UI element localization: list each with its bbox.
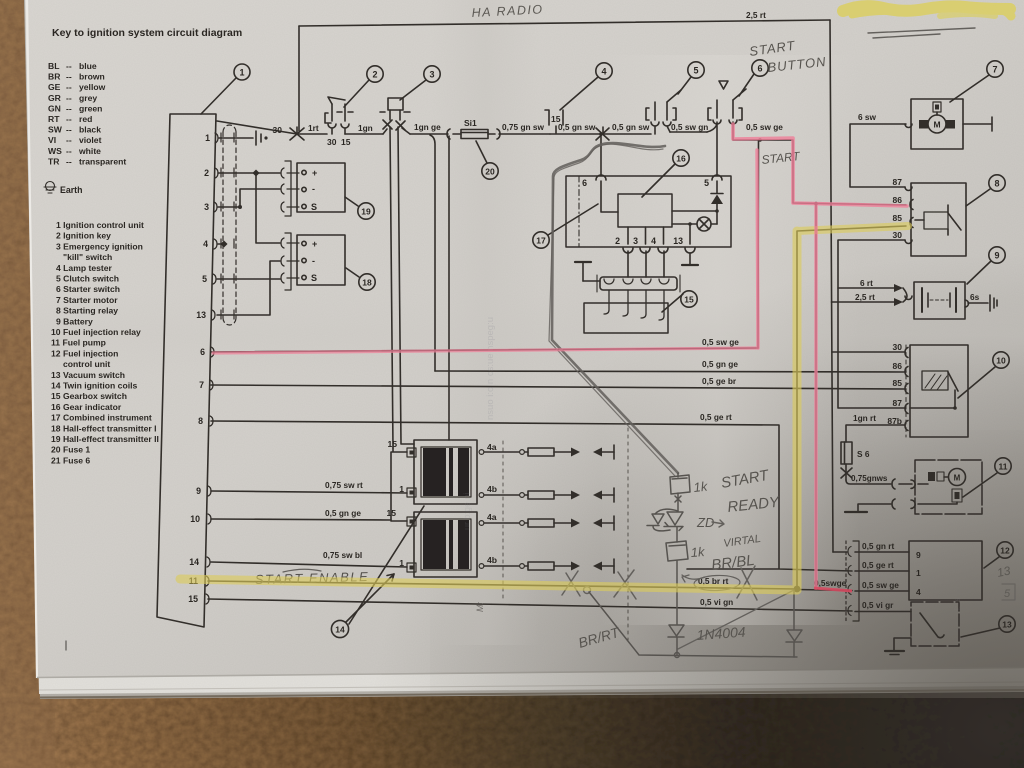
svg-text:--: -- [66, 125, 72, 135]
svg-text:0,75gnws: 0,75gnws [851, 474, 888, 483]
pin numbers of U1 [188, 133, 210, 604]
svg-text:1: 1 [239, 68, 244, 78]
wire row pin8 0,5 ge rt [211, 412, 852, 571]
vacuum switch S7 (item 13) [885, 602, 959, 655]
svg-text:7 Starter motor: 7 Starter motor [56, 295, 118, 305]
svg-text:0,75 sw rt: 0,75 sw rt [325, 480, 363, 490]
node label circle 3 [400, 66, 440, 100]
svg-text:6s: 6s [970, 292, 980, 302]
svg-text:WS: WS [48, 146, 62, 156]
svg-text:1: 1 [205, 133, 210, 143]
connector brackets to transmitters [281, 161, 299, 290]
svg-text:6: 6 [757, 64, 762, 74]
2,5rt supply bus wire [299, 10, 830, 131]
svg-text:9 Battery: 9 Battery [56, 316, 93, 326]
wire pin10 0,5 gn ge to coil 15 rail [211, 508, 391, 520]
svg-text:16 Gear indicator: 16 Gear indicator [51, 402, 122, 412]
svg-text:S: S [311, 273, 317, 283]
svg-text:0,5 vi gr: 0,5 vi gr [862, 600, 894, 610]
svg-text:10 Fuel injection relay: 10 Fuel injection relay [51, 327, 141, 337]
svg-text:11: 11 [999, 462, 1008, 472]
ground at instrument pin 13 [682, 253, 698, 265]
svg-text:3: 3 [633, 236, 638, 246]
combined instrument box (item 17) [566, 176, 731, 247]
wire relay30 to battery [838, 240, 905, 288]
gear indicator box (item 16) [618, 194, 672, 227]
svg-text:85: 85 [893, 378, 903, 388]
junction circle on br-rt wire [584, 587, 591, 594]
svg-text:-: - [312, 184, 315, 194]
node label circle 19 [345, 197, 374, 219]
pencil arrow to tap point [682, 575, 705, 582]
wire pin14 0,75 sw bl to coil2 [211, 550, 407, 567]
fuel pump M2 (item 11) [911, 460, 982, 514]
wire row pin6 0,5 sw ge [211, 337, 758, 352]
svg-text:0,5 gn sw: 0,5 gn sw [612, 122, 650, 132]
svg-text:2,5 rt: 2,5 rt [855, 292, 875, 302]
wire kill-switch feed down to coils [390, 127, 414, 448]
gearbox switch box (item 15) [584, 303, 668, 333]
svg-text:0,5 ge rt: 0,5 ge rt [700, 412, 732, 422]
svg-text:15: 15 [188, 594, 198, 604]
svg-text:Si1: Si1 [464, 118, 477, 128]
svg-text:GN: GN [48, 103, 61, 113]
svg-text:8 Starting relay: 8 Starting relay [56, 306, 118, 316]
svg-text:M: M [933, 120, 940, 130]
lamp tester tap (item 4) [545, 110, 563, 133]
node label circle 13 [961, 616, 1015, 637]
svg-text:violet: violet [79, 135, 102, 145]
svg-text:M:: M: [475, 602, 485, 612]
wire rail to relay10 30 [832, 351, 905, 353]
svg-text:12 Fuel injection: 12 Fuel injection [51, 348, 118, 358]
svg-text:15: 15 [387, 439, 397, 449]
node label circle 8 [966, 175, 1005, 206]
svg-text:0,5 ge rt: 0,5 ge rt [862, 560, 894, 570]
svg-text:3: 3 [429, 70, 434, 80]
svg-text:1rt: 1rt [308, 123, 319, 133]
clutch switch S5 (item 5) [646, 90, 681, 134]
svg-text:brown: brown [79, 72, 105, 82]
svg-text:85: 85 [893, 213, 903, 223]
svg-text:TR: TR [48, 156, 60, 166]
svg-text:15: 15 [341, 137, 351, 147]
svg-text:0,5 gn ge: 0,5 gn ge [702, 359, 738, 369]
svg-text:87: 87 [893, 398, 903, 408]
wire relay 85 feed up [797, 226, 906, 589]
svg-text:16: 16 [676, 154, 686, 164]
svg-text:--: -- [66, 93, 72, 103]
svg-text:0,5 gn sw: 0,5 gn sw [558, 122, 596, 132]
clamp node on 0,5gn sw [558, 122, 650, 140]
wire to clutch switch [550, 133, 651, 135]
hall-effect transmitter II (item 19) [297, 163, 345, 212]
wire row pin11 0,5 br rt [208, 576, 800, 592]
svg-text:1N4004: 1N4004 [696, 624, 746, 643]
wire pin5 [217, 278, 280, 280]
wire 6 sw starter to relay 87 [850, 112, 906, 187]
svg-text:0,5 sw ge: 0,5 sw ge [702, 337, 739, 347]
node label circle 5 [678, 62, 704, 94]
svg-text:GR: GR [48, 93, 62, 103]
svg-text:18 Hall-effect transmitter I: 18 Hall-effect transmitter I [51, 423, 157, 433]
svg-text:1 Ignition control unit: 1 Ignition control unit [56, 220, 144, 230]
clamp node 30 [273, 123, 319, 140]
node label circle 15 [662, 291, 697, 312]
diode D1 in instrument [672, 194, 723, 225]
wire 1gn ge [410, 122, 448, 134]
node label circle 16 [642, 150, 689, 197]
svg-text:control unit: control unit [63, 359, 110, 369]
wire 0,5swge to ECU pin4 [797, 578, 852, 591]
svg-text:blue: blue [79, 61, 97, 71]
svg-text:13: 13 [673, 236, 683, 246]
svg-text:--: -- [66, 114, 72, 124]
svg-text:19: 19 [361, 207, 371, 217]
node label circle 14 [331, 506, 424, 638]
svg-text:SW: SW [48, 125, 63, 135]
svg-text:87: 87 [893, 177, 903, 187]
svg-text:+: + [312, 168, 317, 178]
svg-text:4: 4 [916, 587, 921, 597]
starting relay K1 (item 8) [893, 177, 966, 256]
grey jumper wire from clutch feed to start-ready chain [552, 143, 678, 473]
svg-text:4 Lamp tester: 4 Lamp tester [56, 263, 113, 273]
small pencil mark bottom left [65, 641, 67, 650]
ignition coil T2 (item 14 lower) [386, 508, 497, 577]
svg-text:4a: 4a [487, 512, 497, 522]
instrument pin 5 [704, 175, 722, 188]
spark plug lead row 4a-1 [484, 445, 614, 459]
svg-text:yellow: yellow [79, 82, 106, 92]
fuel injection relay K2 (item 10) [887, 342, 968, 437]
svg-text:5: 5 [202, 274, 207, 284]
svg-text:17 Combined instrument: 17 Combined instrument [51, 413, 152, 423]
node label circle 10 [958, 352, 1009, 398]
svg-text:19 Hall-effect transmitter II: 19 Hall-effect transmitter II [51, 434, 159, 444]
svg-text:6 Starter switch: 6 Starter switch [56, 284, 120, 294]
svg-text:--: -- [66, 72, 72, 82]
svg-text:4b: 4b [487, 555, 497, 565]
svg-text:--: -- [66, 82, 72, 92]
svg-text:2: 2 [615, 236, 620, 246]
fuse Si1 (item 20/fuse1) [447, 118, 500, 139]
svg-text:0,5 vi gn: 0,5 vi gn [700, 597, 733, 607]
svg-text:red: red [79, 114, 92, 124]
svg-text:2 Ignition key: 2 Ignition key [56, 231, 111, 241]
earth symbol legend [44, 182, 83, 196]
key numbered list [51, 220, 159, 465]
svg-text:2: 2 [204, 168, 209, 178]
svg-text:8: 8 [994, 179, 999, 189]
connector plane dashed lines [503, 428, 628, 640]
svg-text:white: white [78, 146, 101, 156]
kill switch S3 (item 3) [380, 98, 410, 134]
svg-text:9: 9 [916, 550, 921, 560]
pink marker start trace [213, 124, 907, 588]
svg-text:15 Gearbox switch: 15 Gearbox switch [51, 391, 127, 401]
node label circle 1 [201, 64, 250, 114]
node label circle 7 [950, 61, 1003, 102]
svg-text:86: 86 [893, 361, 903, 371]
ignition control unit U1 (item 1) [157, 114, 216, 627]
wire row pin7 0,5 ge br to relay 85 [211, 376, 906, 389]
svg-text:3 Emergency ignition: 3 Emergency ignition [56, 241, 143, 251]
red marker segment into ECU [814, 588, 852, 591]
wire 0,5 sw gn [670, 122, 708, 132]
wire 2,5rt rail to battery [832, 292, 895, 302]
wire relay10-87 from rail [838, 288, 905, 408]
pin sockets of U1 [206, 133, 218, 604]
svg-text:6 rt: 6 rt [860, 278, 873, 288]
wire pin13 [217, 261, 280, 315]
pencil 5 bracket [1002, 584, 1015, 600]
node label circle 18 [346, 268, 375, 290]
svg-text:20 Fuse 1: 20 Fuse 1 [51, 445, 90, 455]
svg-text:21 Fuse 6: 21 Fuse 6 [51, 455, 90, 465]
svg-text:4: 4 [203, 239, 208, 249]
wire 1rt [297, 133, 327, 135]
svg-text:10: 10 [190, 514, 200, 524]
svg-text:14 Twin ignition coils: 14 Twin ignition coils [51, 381, 137, 391]
svg-text:12: 12 [1000, 546, 1010, 556]
wire 0,75 gn sw [499, 122, 550, 134]
svg-text:13 Vacuum switch: 13 Vacuum switch [51, 370, 125, 380]
svg-text:11 Fuel pump: 11 Fuel pump [51, 338, 106, 348]
svg-text:-: - [312, 256, 315, 266]
pencil wire from swge junction [678, 590, 794, 649]
svg-text:1k: 1k [690, 544, 706, 560]
spark plug lead row 4b-1 [484, 488, 614, 502]
wire 1gn [345, 123, 383, 134]
svg-text:i: .s: i: .s [953, 598, 962, 610]
svg-text:6: 6 [582, 178, 587, 188]
zener pair ZD [647, 509, 683, 542]
svg-text:ur b:ge ni: ur b:ge ni [462, 492, 472, 530]
svg-text:14: 14 [335, 625, 345, 635]
instrument pin 6 [582, 175, 618, 212]
svg-text:17: 17 [536, 236, 546, 246]
diode D-1N4004 a [668, 625, 684, 658]
wire pin3 [218, 189, 280, 209]
svg-text:15: 15 [684, 295, 694, 305]
svg-text:13: 13 [196, 310, 206, 320]
starter motor M1 (item 7) [905, 99, 992, 149]
svg-text:0,5 sw ge: 0,5 sw ge [746, 122, 783, 132]
wire pin9 0,75 sw rt to coil1 [211, 480, 407, 493]
svg-text:9: 9 [196, 486, 201, 496]
svg-text:grey: grey [79, 93, 97, 103]
svg-text:VI: VI [48, 135, 56, 145]
svg-text:+: + [312, 239, 317, 249]
svg-text:BL: BL [48, 61, 59, 71]
svg-text:green: green [79, 103, 102, 113]
svg-text:5: 5 [704, 178, 709, 188]
svg-text:20: 20 [485, 167, 495, 177]
svg-text:Earth: Earth [60, 185, 83, 195]
svg-text:0,5 ge br: 0,5 ge br [702, 376, 737, 386]
ignition key switch S2 (item 2) [325, 97, 353, 147]
cable sheath dashed loop [223, 125, 236, 325]
wire rail into ECU pin9 [833, 541, 895, 552]
svg-text:3: 3 [204, 202, 209, 212]
wire ignition feed down (to coil 15) [448, 136, 450, 440]
starter button S6 (item 6) [707, 81, 746, 132]
bracket to ECU wires [855, 552, 911, 612]
svg-text:GE: GE [48, 82, 61, 92]
svg-text:4: 4 [651, 236, 656, 246]
svg-text:2,5 rt: 2,5 rt [746, 10, 766, 20]
svg-text:Key to ignition system circuit: Key to ignition system circuit diagram [52, 27, 242, 39]
svg-text:30: 30 [327, 137, 337, 147]
spark plug lead row 4b-2 [484, 559, 614, 573]
indicator lamp L1 [672, 217, 717, 244]
svg-text:S 6: S 6 [857, 449, 870, 459]
svg-text:6: 6 [200, 347, 205, 357]
svg-text:S: S [311, 202, 317, 212]
svg-text:8: 8 [198, 416, 203, 426]
svg-text:30: 30 [893, 342, 903, 352]
wire branch down to 0,5gn ge row [430, 135, 435, 371]
svg-text:30: 30 [893, 230, 903, 240]
svg-text:0,5swge: 0,5swge [814, 578, 847, 588]
svg-text:M: M [954, 474, 961, 483]
svg-text:--: -- [66, 146, 72, 156]
ECU connector bracket [846, 541, 859, 621]
feed arrows into battery [894, 284, 912, 306]
pencil underline top right [868, 28, 975, 38]
svg-text:0,5 sw gn: 0,5 sw gn [671, 122, 708, 132]
svg-text:14: 14 [189, 557, 199, 567]
node label circle 12 [984, 542, 1013, 568]
svg-text:86: 86 [893, 195, 903, 205]
wire start signal branch down to ECU [815, 204, 817, 589]
instrument pins 2 3 4 13 [615, 227, 695, 253]
svg-text:--: -- [66, 103, 72, 113]
svg-text:13: 13 [1002, 620, 1012, 630]
svg-text:9: 9 [994, 251, 999, 261]
svg-text:5: 5 [1004, 588, 1011, 600]
sheath crossing ticks [221, 133, 234, 319]
wire pin2 to transmitters [218, 169, 280, 243]
svg-text:4: 4 [601, 67, 606, 77]
wire 1gn rt with fuse S6 to pump [841, 413, 912, 489]
pump ground return [845, 499, 895, 512]
svg-text:4b: 4b [487, 484, 497, 494]
wire start button to relay 86 [733, 122, 906, 205]
svg-text:0,5 sw ge: 0,5 sw ge [862, 580, 899, 590]
fuel injection ECU (item 12) [909, 541, 982, 600]
svg-text:5: 5 [693, 66, 698, 76]
svg-text:BR: BR [48, 72, 61, 82]
svg-text:0,75 gn sw: 0,75 gn sw [502, 122, 545, 132]
battery G1 (item 9) [914, 282, 997, 319]
svg-text:1gn: 1gn [358, 123, 373, 133]
svg-text:2: 2 [372, 70, 377, 80]
yellow highlight start-enable path [180, 226, 908, 590]
yellow scribble top right [843, 6, 1011, 16]
svg-text:10: 10 [996, 356, 1006, 366]
wires pins into gearbox switch [604, 251, 664, 320]
node label circle 2 [344, 66, 383, 107]
svg-text:1: 1 [916, 568, 921, 578]
svg-text:1gn rt: 1gn rt [853, 413, 876, 423]
earth stub in instrument [575, 262, 600, 281]
svg-text:7: 7 [992, 65, 997, 75]
spark plug lead row 4a-2 [484, 516, 614, 530]
svg-text:15: 15 [386, 508, 396, 518]
wire bus junction down to instrument pin 6 [599, 132, 603, 175]
hall-effect transmitter I (item 18) [297, 235, 345, 285]
ignition coil T1 (item 14 upper) [387, 439, 497, 504]
svg-text:nsuo i:o n cs:ue nspeg:u: nsuo i:o n cs:ue nspeg:u [485, 317, 496, 420]
wire pin4 stub [218, 240, 228, 247]
cross marks on start-enable wire [562, 571, 580, 596]
svg-text:0,75 sw bl: 0,75 sw bl [323, 550, 362, 560]
wire start signal down to U1 pin6 [757, 140, 760, 348]
node label circle 17 [533, 204, 598, 248]
svg-text:transparent: transparent [79, 156, 126, 166]
svg-text:0,5 gn rt: 0,5 gn rt [862, 541, 895, 551]
wire row pin15 0,5 vi gn [208, 597, 852, 611]
gearbox switch plug row [597, 275, 680, 292]
svg-text:6 sw: 6 sw [858, 112, 877, 122]
start-ready chain: resistor R1k-1 [670, 473, 690, 511]
battery rail wire [830, 20, 833, 552]
svg-text:--: -- [66, 156, 72, 166]
node label circle 4 [560, 63, 612, 110]
wire pin1 with suppressor end [219, 131, 268, 145]
node label circle 20 [476, 141, 498, 179]
svg-text:1gn ge: 1gn ge [414, 122, 441, 132]
svg-text:30: 30 [273, 125, 283, 135]
svg-text:"kill" switch: "kill" switch [63, 252, 112, 262]
colour code legend [48, 61, 126, 166]
wire U1 top to terminal 30 [217, 121, 297, 134]
svg-text:--: -- [66, 61, 72, 71]
svg-text:black: black [79, 125, 101, 135]
node label circle 9 [967, 247, 1005, 284]
svg-text:4a: 4a [487, 442, 497, 452]
start-ready chain: resistor R1k-2 [666, 541, 688, 624]
svg-text:18: 18 [362, 278, 372, 288]
svg-text:5 Clutch switch: 5 Clutch switch [56, 274, 119, 284]
pencil wire to diode bus [589, 592, 797, 657]
pencil oval around 0,5 br rt [694, 575, 740, 592]
coil 15-terminal link rail [391, 448, 407, 521]
diode D-1N4004 b [786, 590, 802, 657]
svg-text:0,5 gn ge: 0,5 gn ge [325, 508, 361, 518]
node label circle 11 [963, 458, 1011, 497]
svg-text:1: 1 [399, 484, 404, 494]
svg-text:RT: RT [48, 114, 60, 124]
node label circle 6 [739, 60, 768, 96]
wire start button down through pin 5 [716, 122, 718, 193]
wire row 0,5 gn ge to relay 86 [435, 359, 906, 372]
svg-text:7: 7 [199, 380, 204, 390]
svg-text:1: 1 [399, 558, 404, 568]
svg-text:--: -- [66, 135, 72, 145]
